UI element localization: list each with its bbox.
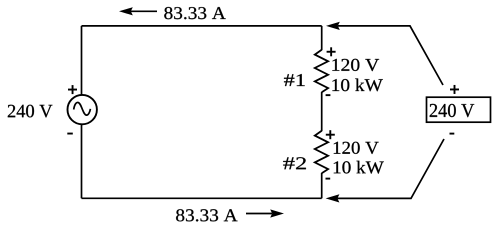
resistor #2 designator label	[283, 157, 306, 169]
resistor #1 minus sign	[326, 94, 331, 96]
resistor #1 plus sign	[327, 47, 336, 56]
current arrow bottom 83.33 A	[246, 209, 284, 217]
AC source value label 240 V	[8, 105, 53, 118]
source box minus sign	[450, 133, 455, 135]
wire from source box bottom to bottom node	[338, 139, 445, 198]
current value label bottom 83.33 A	[176, 209, 237, 221]
arrowhead into bottom node	[326, 194, 340, 202]
arrowhead into top node	[326, 22, 340, 30]
resistor #1 voltage label 120 V	[332, 59, 379, 71]
resistor #2 power label 10 kW	[334, 161, 384, 174]
resistor #2 minus sign	[326, 178, 331, 180]
source box rectangle	[427, 97, 491, 122]
resistor #2 zigzag	[315, 131, 328, 173]
wire top horizontal	[82, 25, 322, 27]
wire from source box top to top node	[338, 26, 443, 85]
resistor #2 plus sign	[326, 130, 335, 139]
AC source minus sign	[67, 133, 73, 135]
resistor #1 power label 10 kW	[332, 79, 382, 92]
AC source sine wave	[74, 102, 91, 115]
wire right vertical lower lead	[321, 173, 323, 198]
wire bottom horizontal	[82, 197, 322, 199]
source box value label 240 V	[430, 104, 475, 117]
resistor #1 zigzag	[315, 50, 328, 92]
source box plus sign	[450, 85, 459, 94]
wire right vertical middle	[321, 92, 323, 131]
AC source plus sign	[68, 85, 77, 94]
resistor #2 voltage label 120 V	[334, 142, 379, 154]
AC source V1 circle	[68, 95, 97, 124]
wire right vertical upper lead	[321, 26, 323, 50]
wire left vertical lower	[81, 124, 83, 198]
wire left vertical upper	[81, 26, 83, 95]
current value label top 83.33 A	[164, 7, 225, 19]
current arrow top 83.33 A	[119, 7, 157, 15]
resistor #1 designator label	[284, 74, 305, 86]
